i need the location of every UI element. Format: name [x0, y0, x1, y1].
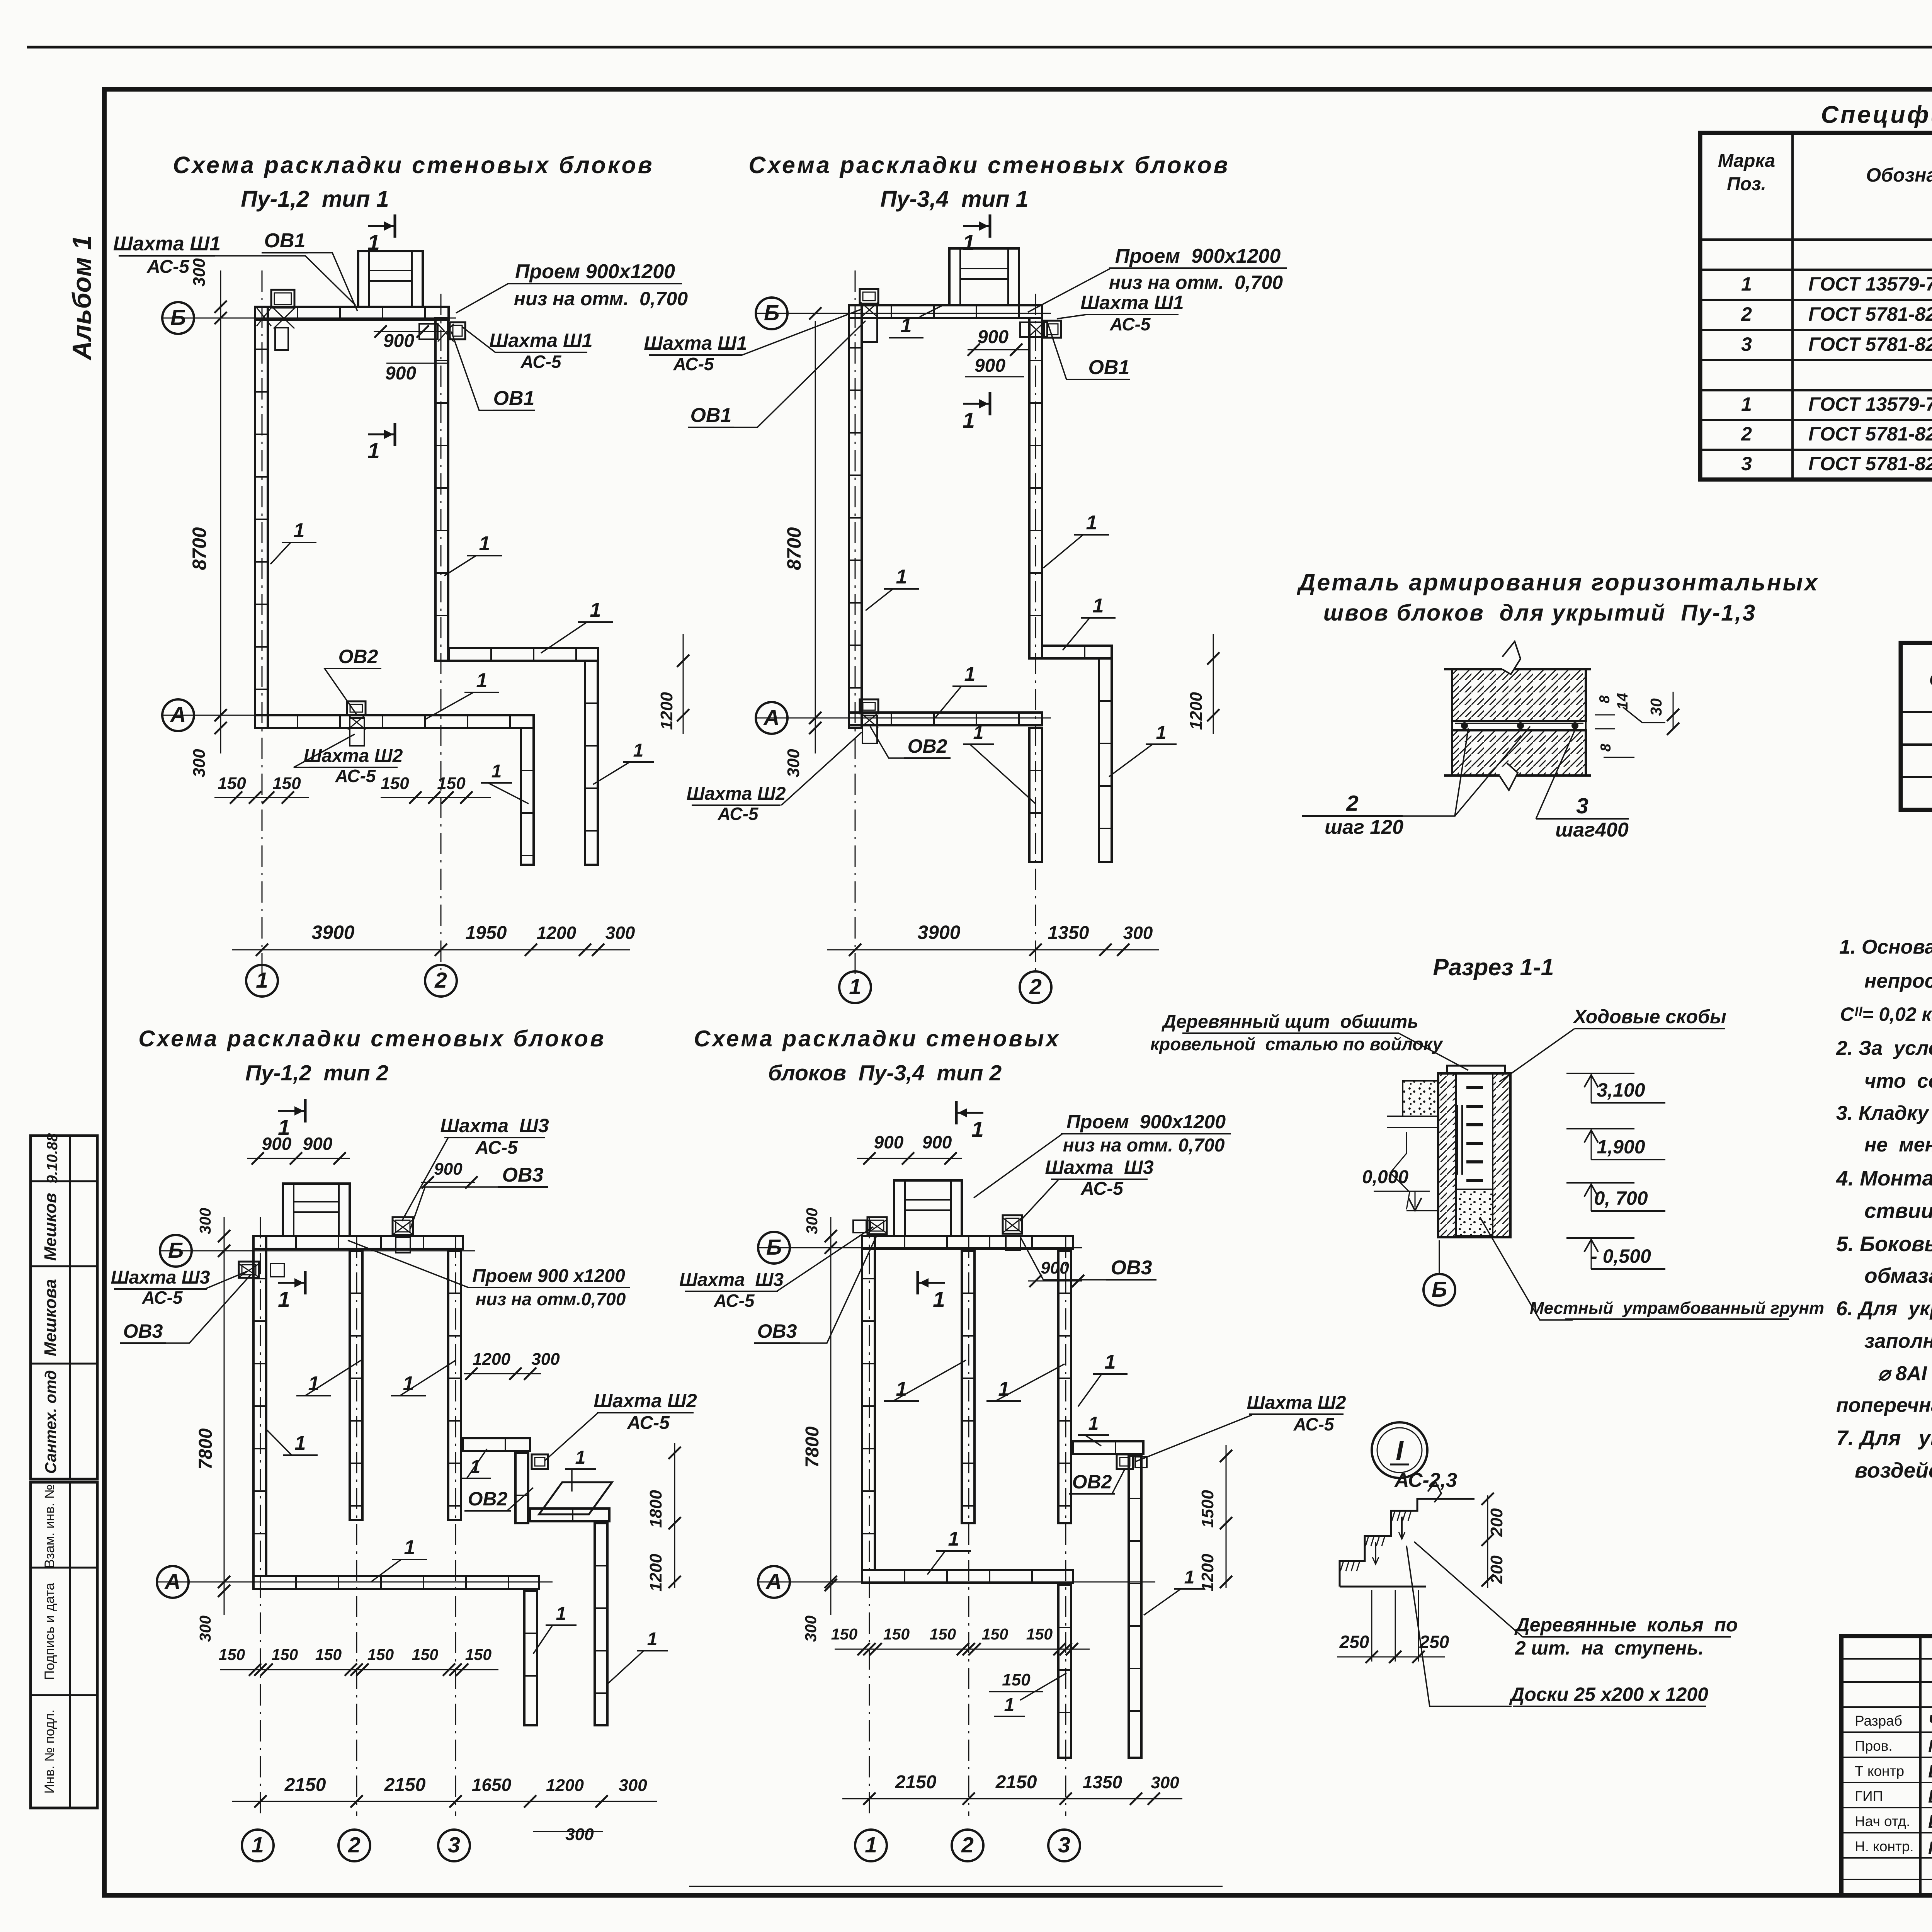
- diagram3 axis 2 dashdot: [356, 1236, 357, 1816]
- svg-text:шаг 120: шаг 120: [1325, 816, 1403, 838]
- diagram4 axis2 wall: [962, 1251, 975, 1523]
- svg-text:Проем 900х1200: Проем 900х1200: [515, 260, 675, 283]
- svg-text:1200: 1200: [537, 923, 577, 943]
- diagram1 shaft Ш1 plan box: [358, 251, 423, 307]
- svg-text:Шахта Ш1: Шахта Ш1: [113, 233, 221, 255]
- svg-text:7. Для укрытий Пу-1,3 прои: 7. Для укрытий Пу-1,3 произведен расчет …: [1836, 1426, 1932, 1450]
- svg-text:1: 1: [1086, 512, 1097, 534]
- diagram2 right wall axis2 upper: [1029, 318, 1042, 658]
- svg-text:Чеброва: Чеброва: [1928, 1711, 1932, 1731]
- svg-text:300: 300: [1123, 923, 1153, 943]
- diagram4 axis А line: [757, 1582, 1155, 1583]
- diagram4 axis 1 dashdot: [869, 1217, 870, 1816]
- svg-text:Обозначение: Обозначение: [1929, 670, 1932, 690]
- svg-text:150: 150: [437, 774, 466, 793]
- diagram3 dim 1800 1200 right: [674, 1443, 675, 1588]
- diagram3 axis2 wall: [350, 1251, 362, 1520]
- svg-text:900: 900: [434, 1160, 463, 1179]
- diagram3 axis А line: [156, 1582, 553, 1583]
- diagram4 dim 900 mid: [1028, 1281, 1082, 1282]
- svg-text:1: 1: [948, 1528, 959, 1550]
- diagram4 Ш2 box: [1117, 1454, 1133, 1469]
- svg-text:Проем 900х1200: Проем 900х1200: [1066, 1111, 1226, 1133]
- svg-text:900: 900: [978, 327, 1009, 347]
- diagram1 top wall: [255, 307, 449, 320]
- diagram3 left wall: [253, 1236, 266, 1576]
- svg-text:ОВ3: ОВ3: [502, 1164, 544, 1186]
- svg-text:150: 150: [367, 1646, 394, 1663]
- svg-text:8700: 8700: [189, 527, 210, 570]
- svg-text:что соответствует абсолютной: что соответствует абсолютной отметке: [1864, 1070, 1932, 1092]
- svg-text:1200: 1200: [1198, 1554, 1217, 1592]
- svg-text:150: 150: [272, 774, 301, 793]
- svg-text:1: 1: [1004, 1695, 1015, 1715]
- detail mortar joint: [1452, 721, 1586, 730]
- title block vertical lines left part: [1919, 1636, 1922, 1895]
- svg-text:3. Кладку блоков - вести на: 3. Кладку блоков - вести на растворе мар…: [1836, 1102, 1932, 1124]
- svg-text:300: 300: [1151, 1773, 1179, 1792]
- section wall left strip: [1438, 1073, 1456, 1237]
- svg-text:АС-5: АС-5: [713, 1291, 755, 1311]
- svg-text:Шахта Ш3: Шахта Ш3: [111, 1267, 210, 1288]
- svg-text:Схема раскладки стеновых блоко: Схема раскладки стеновых блоков: [138, 1026, 605, 1051]
- svg-text:А: А: [763, 705, 779, 730]
- svg-text:1: 1: [256, 968, 268, 993]
- svg-text:300: 300: [784, 749, 803, 777]
- svg-text:Мешков: Мешков: [41, 1193, 60, 1261]
- svg-text:Обозначение: Обозначение: [1866, 164, 1932, 186]
- svg-text:ОВ3: ОВ3: [757, 1320, 797, 1342]
- svg-text:8: 8: [1598, 743, 1614, 752]
- title block left rows: [1841, 1658, 1932, 1660]
- diagram4 axis Б circle: [758, 1232, 790, 1264]
- diagram1 dim 300 top left: [220, 270, 221, 321]
- diagram3 dim 7800 left: [224, 1252, 225, 1582]
- diagram3 axis Б line: [159, 1250, 475, 1252]
- svg-text:Сᴵᴵ= 0,02 кгс/см²; Е=150кгс/с: Сᴵᴵ= 0,02 кгс/см²; Е=150кгс/см²; γ ᴵᴵ =1…: [1840, 1003, 1932, 1025]
- svg-text:1650: 1650: [472, 1775, 512, 1795]
- svg-text:1: 1: [849, 975, 861, 999]
- svg-text:150: 150: [930, 1625, 956, 1643]
- svg-text:заполненных раствором, заклад: заполненных раствором, закладывается про…: [1864, 1330, 1932, 1352]
- section foundation dotted: [1456, 1189, 1493, 1236]
- svg-text:2 шт. на ступень.: 2 шт. на ступень.: [1515, 1637, 1704, 1659]
- svg-text:ОВ1: ОВ1: [690, 404, 732, 427]
- diagram1 section mark bottom: [394, 423, 396, 446]
- svg-text:АС-5: АС-5: [146, 257, 190, 277]
- svg-text:1: 1: [476, 669, 488, 692]
- svg-text:поперечная арматура ⌀6АI, е=: поперечная арматура ⌀6АI, е= 280мм с шаг…: [1836, 1394, 1932, 1417]
- svg-text:АС-5: АС-5: [335, 766, 376, 786]
- svg-text:Альбом 1: Альбом 1: [67, 235, 97, 361]
- spec table outer border: [1700, 133, 1932, 480]
- diagram1 dim 1200 right: [683, 634, 684, 734]
- section elevation flags: [1566, 1073, 1634, 1074]
- diagram1 ОВ2 box: [347, 701, 366, 715]
- diagram3 axis circle 2: [338, 1830, 370, 1861]
- svg-text:1: 1: [633, 740, 644, 761]
- svg-text:Взам. инв. №: Взам. инв. №: [42, 1485, 57, 1568]
- section wall right strip: [1493, 1073, 1510, 1237]
- diagram2 section mark top: [989, 214, 992, 238]
- node I tread hatches: [1340, 1561, 1344, 1571]
- node I circle: [1372, 1422, 1427, 1478]
- svg-text:1: 1: [865, 1833, 877, 1857]
- svg-text:3: 3: [1741, 453, 1752, 474]
- svg-text:300: 300: [196, 1208, 214, 1235]
- diagram3 step wall v2: [595, 1523, 607, 1725]
- svg-text:Схема раскладки стеновых блоко: Схема раскладки стеновых блоков: [173, 152, 654, 178]
- diagram4 right wall lower: [1129, 1456, 1141, 1758]
- diagram1 ОВ1 cross: [257, 308, 271, 326]
- svg-text:не менее 300 мм.: не менее 300 мм.: [1864, 1134, 1932, 1156]
- svg-text:ГОСТ 13579-78: ГОСТ 13579-78: [1808, 393, 1932, 415]
- svg-text:2: 2: [1029, 975, 1042, 999]
- diagram4 dim 1500 1200 right: [1226, 1445, 1227, 1588]
- svg-text:Шахта Ш3: Шахта Ш3: [440, 1115, 549, 1136]
- diagram1 dim 900 opening: [374, 331, 444, 332]
- svg-text:ОВ2: ОВ2: [468, 1488, 508, 1510]
- svg-text:150: 150: [381, 774, 409, 793]
- section left floor slab: [1403, 1081, 1438, 1116]
- svg-text:ГОСТ 5781-82: ГОСТ 5781-82: [1808, 303, 1932, 325]
- diagram2 ОВ2 box: [860, 699, 878, 713]
- svg-text:Шахта Ш2: Шахта Ш2: [687, 784, 786, 804]
- svg-text:кровельной сталью по войлоку: кровельной сталью по войлоку: [1150, 1034, 1444, 1054]
- diagram4 dims 150 row: [835, 1649, 1090, 1650]
- diagram2 axis А line: [755, 718, 1051, 719]
- svg-text:Пу-3,4 тип 1: Пу-3,4 тип 1: [880, 186, 1028, 212]
- svg-text:1500: 1500: [1198, 1490, 1217, 1528]
- diagram2 dim 1200 right: [1213, 634, 1214, 734]
- svg-text:900: 900: [262, 1134, 292, 1154]
- svg-text:1800: 1800: [646, 1490, 665, 1528]
- diagram3 ОВ3 box on top wall: [393, 1217, 413, 1235]
- svg-text:ГИП: ГИП: [1855, 1788, 1883, 1804]
- svg-text:1: 1: [647, 1629, 658, 1650]
- svg-text:300: 300: [190, 749, 209, 777]
- diagram2 top wall: [849, 305, 1042, 318]
- svg-text:1,900: 1,900: [1597, 1136, 1645, 1158]
- svg-text:ОВ1: ОВ1: [493, 387, 535, 410]
- svg-text:Шахта Ш1: Шахта Ш1: [644, 332, 747, 354]
- svg-text:1: 1: [963, 408, 975, 433]
- svg-text:Схема раскладки стеновых: Схема раскладки стеновых: [694, 1026, 1061, 1051]
- svg-text:150: 150: [982, 1625, 1009, 1643]
- diagram3 ОВ3 box left wall: [239, 1262, 259, 1278]
- svg-text:1: 1: [367, 230, 380, 255]
- node I staircase: [1340, 1499, 1475, 1587]
- diagram2 axis circle 1: [839, 971, 871, 1003]
- svg-text:3900: 3900: [917, 922, 960, 943]
- svg-text:2150: 2150: [995, 1772, 1037, 1793]
- svg-text:Ходовые скобы: Ходовые скобы: [1572, 1006, 1726, 1027]
- diagram1 ОВ1 opening box left: [271, 290, 294, 308]
- svg-text:низ на отм.0,700: низ на отм.0,700: [476, 1289, 626, 1309]
- svg-text:1350: 1350: [1083, 1772, 1122, 1792]
- diagram2 dim 900 opening: [968, 349, 1028, 350]
- svg-text:1: 1: [556, 1604, 566, 1624]
- svg-text:1200: 1200: [657, 692, 676, 730]
- diagram1 shaft Ш1 box right: [450, 322, 465, 339]
- detail dim 30 right: [1673, 692, 1674, 730]
- svg-text:2150: 2150: [895, 1772, 937, 1793]
- diagram4 dim 300 left bottom: [830, 1582, 832, 1615]
- svg-text:1: 1: [1184, 1567, 1195, 1588]
- diagram3 dim 900 mid: [421, 1182, 475, 1183]
- diagram3 Ш2 box: [532, 1454, 548, 1469]
- svg-text:4. Монтаж сборных бетонных: 4. Монтаж сборных бетонных элементов вес…: [1836, 1166, 1932, 1190]
- diagram1 axis circle 1: [246, 965, 278, 997]
- spec table column lines: [1791, 133, 1794, 480]
- svg-text:2: 2: [1346, 791, 1359, 816]
- diagram4 axis circle 3: [1048, 1830, 1080, 1861]
- diagram1 axis Б circle: [162, 302, 194, 334]
- diagram1 axis circle 2: [425, 965, 457, 997]
- diagram3 lower mid wall: [524, 1591, 537, 1725]
- svg-text:300: 300: [196, 1616, 214, 1642]
- svg-text:Поз.: Поз.: [1727, 174, 1766, 194]
- diagram4 bottom dim line: [842, 1798, 1182, 1799]
- svg-text:низ на отм. 0,700: низ на отм. 0,700: [1109, 272, 1283, 293]
- diagram1 axis 2 dashdot: [440, 294, 442, 974]
- diagram1 dim 300 bottom left: [220, 715, 221, 753]
- diagram3 top wall: [253, 1236, 463, 1249]
- diagram1 axis 1 dashdot: [262, 270, 263, 974]
- svg-text:3: 3: [1058, 1833, 1070, 1857]
- svg-text:3900: 3900: [311, 922, 354, 943]
- svg-text:Макарова: Макарова: [1928, 1736, 1932, 1756]
- diagram4 top wall: [862, 1236, 1073, 1249]
- diagram3 step wall v1: [515, 1453, 528, 1523]
- svg-text:0, 700: 0, 700: [1594, 1187, 1648, 1209]
- diagram3 axis А circle: [157, 1566, 189, 1598]
- svg-text:8: 8: [1597, 695, 1612, 703]
- svg-text:АС-5: АС-5: [673, 354, 714, 374]
- diagram4 section mark inner: [917, 1271, 919, 1294]
- diagram3 step wall h1: [463, 1438, 530, 1451]
- diagram3 dim 300 left bottom: [224, 1582, 225, 1615]
- svg-text:1: 1: [1156, 723, 1167, 743]
- svg-text:Валяев: Валяев: [1928, 1811, 1932, 1832]
- svg-text:Шахта Ш1: Шахта Ш1: [489, 330, 592, 351]
- svg-text:1: 1: [367, 439, 380, 463]
- svg-text:150: 150: [412, 1646, 439, 1663]
- svg-text:АС-5: АС-5: [520, 352, 561, 372]
- diagram4 left wall: [862, 1236, 875, 1570]
- svg-text:ОВ3: ОВ3: [1111, 1257, 1152, 1279]
- svg-text:300: 300: [531, 1350, 560, 1369]
- svg-text:ГОСТ 5781-82: ГОСТ 5781-82: [1808, 453, 1932, 474]
- diagram1 bottom wall axis А: [255, 715, 534, 728]
- section break line left: [1390, 1132, 1410, 1209]
- diagram2 axis Б line: [755, 313, 1051, 314]
- svg-text:Инв. № подл.: Инв. № подл.: [42, 1709, 57, 1794]
- svg-text:Проем 900 х1200: Проем 900 х1200: [472, 1266, 625, 1286]
- svg-text:ствии с требованиями СНиП: ствии с требованиями СНиП 3.03.01– 87: [1864, 1199, 1932, 1223]
- svg-text:900: 900: [874, 1132, 904, 1152]
- svg-text:150: 150: [831, 1625, 858, 1643]
- diagram4 step wall h: [1073, 1441, 1143, 1454]
- svg-text:1: 1: [404, 1536, 415, 1559]
- svg-text:Б: Б: [168, 1238, 184, 1263]
- diagram3 axis 3 dashdot: [455, 1236, 456, 1816]
- svg-text:АС-5: АС-5: [141, 1287, 183, 1308]
- svg-text:150: 150: [1026, 1625, 1053, 1643]
- svg-text:Н. контр.: Н. контр.: [1855, 1838, 1914, 1854]
- svg-text:14: 14: [1614, 693, 1631, 710]
- diagram2 left wall: [849, 305, 862, 728]
- diagram3 section mark top: [304, 1099, 307, 1122]
- detail dim 8 14 right: [1595, 714, 1615, 716]
- svg-text:воздействие нагрузки от удар: воздействие нагрузки от ударной волны Р …: [1855, 1458, 1932, 1482]
- diagram3 shaft plan box: [283, 1184, 350, 1236]
- svg-text:1200: 1200: [646, 1554, 665, 1592]
- diagram4 dim 900 900 top: [857, 1158, 962, 1159]
- detail break zigzag bottom: [1499, 763, 1518, 790]
- diagram1 bottom dim line: [232, 949, 630, 951]
- svg-text:200: 200: [1487, 1508, 1506, 1537]
- svg-text:150: 150: [465, 1646, 492, 1663]
- svg-text:Шахта Ш3: Шахта Ш3: [1045, 1156, 1154, 1178]
- svg-text:150: 150: [219, 1646, 245, 1663]
- svg-text:150: 150: [272, 1646, 298, 1663]
- svg-text:1: 1: [278, 1287, 290, 1312]
- svg-text:1: 1: [1088, 1413, 1099, 1434]
- svg-text:Пу-1,2 тип 2: Пу-1,2 тип 2: [245, 1061, 389, 1085]
- svg-text:А: А: [765, 1569, 782, 1594]
- svg-text:900: 900: [975, 355, 1005, 376]
- svg-text:2. За условную отметку 0,00: 2. За условную отметку 0,000 принята отм…: [1836, 1037, 1932, 1060]
- diagram4 ОВ3 box left: [867, 1217, 887, 1234]
- left stamp column upper box: [31, 1136, 97, 1479]
- svg-text:1: 1: [1741, 393, 1752, 415]
- svg-text:Сантех. отд: Сантех. отд: [42, 1370, 60, 1474]
- svg-text:1: 1: [1105, 1351, 1116, 1373]
- svg-text:2: 2: [1741, 423, 1752, 445]
- svg-text:ОВ3: ОВ3: [123, 1320, 163, 1342]
- svg-text:1: 1: [295, 1432, 306, 1454]
- svg-text:ОВ1: ОВ1: [264, 230, 306, 252]
- diagram4 dim 7800 left: [830, 1250, 832, 1582]
- svg-text:6. Для укрытий Пу-1,3 во вс: 6. Для укрытий Пу-1,3 во всех горизонтал…: [1836, 1298, 1932, 1320]
- svg-text:ОВ2: ОВ2: [338, 646, 378, 667]
- svg-text:I: I: [1396, 1435, 1404, 1466]
- diagram1 step wall horizontal: [449, 648, 598, 661]
- svg-text:1: 1: [479, 532, 490, 555]
- svg-text:Деталь армирования горизонталь: Деталь армирования горизонтальных: [1296, 569, 1819, 595]
- node I dim 200 200: [1487, 1495, 1488, 1588]
- svg-text:ОВ1: ОВ1: [1088, 356, 1130, 379]
- svg-text:300: 300: [802, 1616, 820, 1642]
- diagram3 step wall h2: [530, 1509, 609, 1521]
- svg-text:1: 1: [973, 723, 984, 743]
- svg-text:1: 1: [896, 566, 907, 588]
- diagram2 section mark bottom: [989, 392, 992, 415]
- svg-text:1: 1: [933, 1287, 945, 1312]
- diagram4 axis3 wall: [1058, 1251, 1071, 1523]
- svg-text:АС-5: АС-5: [717, 804, 759, 824]
- svg-text:Шахта Ш2: Шахта Ш2: [304, 746, 403, 766]
- svg-text:Шахта Ш3: Шахта Ш3: [679, 1270, 784, 1290]
- svg-text:2: 2: [434, 968, 447, 993]
- svg-text:1950: 1950: [466, 923, 507, 943]
- svg-text:Доски 25 х200 х 1200: Доски 25 х200 х 1200: [1509, 1684, 1708, 1705]
- diagram4 axis 3 dashdot: [1065, 1236, 1066, 1816]
- diagram2 bottom wall axis А: [849, 713, 1042, 725]
- svg-text:30: 30: [1647, 698, 1665, 716]
- svg-text:900: 900: [1041, 1259, 1069, 1277]
- detail lower block: [1452, 730, 1586, 776]
- svg-text:1: 1: [590, 599, 601, 621]
- diagram4 ОВ3 box right: [1003, 1215, 1022, 1234]
- svg-text:Шахта Ш2: Шахта Ш2: [594, 1390, 697, 1412]
- diagram2 step wall horizontal: [1042, 646, 1112, 658]
- diagram3 section mark inner: [304, 1271, 307, 1294]
- diagram1 section mark top: [394, 214, 396, 238]
- svg-text:9.10.88: 9.10.88: [44, 1133, 61, 1184]
- diagram3 axis circle 1: [242, 1830, 274, 1861]
- diagram2 bottom dim line: [827, 949, 1159, 951]
- svg-text:ОВ2: ОВ2: [1072, 1471, 1112, 1493]
- svg-text:Ефимовский: Ефимовский: [1928, 1786, 1932, 1806]
- svg-text:Б: Б: [766, 1235, 782, 1260]
- svg-text:обмазать горячим битумом з: обмазать горячим битумом за 2 раза.: [1864, 1264, 1932, 1287]
- svg-text:Схема раскладки стеновых блоко: Схема раскладки стеновых блоков: [748, 152, 1230, 178]
- section axis Б circle: [1423, 1274, 1455, 1306]
- svg-text:АС-5: АС-5: [1293, 1414, 1334, 1434]
- svg-text:ОВ2: ОВ2: [908, 735, 947, 757]
- svg-text:Т контр: Т контр: [1855, 1763, 1904, 1779]
- section ladder lines: [1457, 1105, 1458, 1175]
- svg-text:8700: 8700: [783, 527, 805, 570]
- diagram2 dim 900 lower: [965, 376, 1024, 378]
- page top edge line: [27, 46, 1932, 49]
- vent table outer border: [1901, 643, 1932, 810]
- svg-text:Подпись и дата: Подпись и дата: [42, 1583, 57, 1680]
- svg-text:5. Боковые поверхности блоко: 5. Боковые поверхности блоков, соприкаса…: [1836, 1232, 1932, 1256]
- svg-text:300: 300: [619, 1776, 647, 1795]
- svg-text:блоков Пу-3,4 тип 2: блоков Пу-3,4 тип 2: [768, 1061, 1002, 1085]
- svg-text:1: 1: [294, 519, 305, 542]
- svg-text:1: 1: [492, 761, 502, 782]
- svg-text:1: 1: [308, 1372, 320, 1395]
- diagram4 axis Б line: [757, 1247, 1082, 1248]
- svg-text:2: 2: [348, 1833, 361, 1857]
- svg-text:150: 150: [883, 1625, 910, 1643]
- diagram4 bottom wall axis А: [862, 1570, 1073, 1583]
- svg-text:1200: 1200: [546, 1776, 584, 1795]
- svg-text:900: 900: [303, 1134, 333, 1154]
- diagram3 bottom wall axis А: [253, 1576, 539, 1589]
- svg-text:ГОСТ 5781-82: ГОСТ 5781-82: [1808, 423, 1932, 445]
- title block outer: [1841, 1636, 1932, 1895]
- section skoby dashes: [1466, 1086, 1483, 1089]
- svg-text:АС-5: АС-5: [1109, 314, 1151, 334]
- diagram1 axis А circle: [162, 699, 194, 731]
- svg-text:Нач отд.: Нач отд.: [1855, 1813, 1910, 1829]
- svg-text:Проем 900х1200: Проем 900х1200: [1115, 245, 1281, 267]
- diagram4 axis3 wall below А: [1058, 1585, 1071, 1758]
- svg-text:Мешкова: Мешкова: [41, 1279, 60, 1356]
- diagram2 shaft plan box: [949, 248, 1019, 305]
- svg-text:⌀ 8АI перехлестом в углах: ⌀ 8АI перехлестом в углах и пересечениях…: [1878, 1362, 1932, 1385]
- diagram2 axis circle 2: [1020, 971, 1051, 1003]
- svg-text:250: 250: [1339, 1632, 1369, 1652]
- svg-text:2150: 2150: [284, 1775, 326, 1795]
- diagram1 right wall lower: [585, 661, 598, 865]
- svg-text:швов блоков для укрытий Пу-1: швов блоков для укрытий Пу-1,3: [1323, 600, 1756, 626]
